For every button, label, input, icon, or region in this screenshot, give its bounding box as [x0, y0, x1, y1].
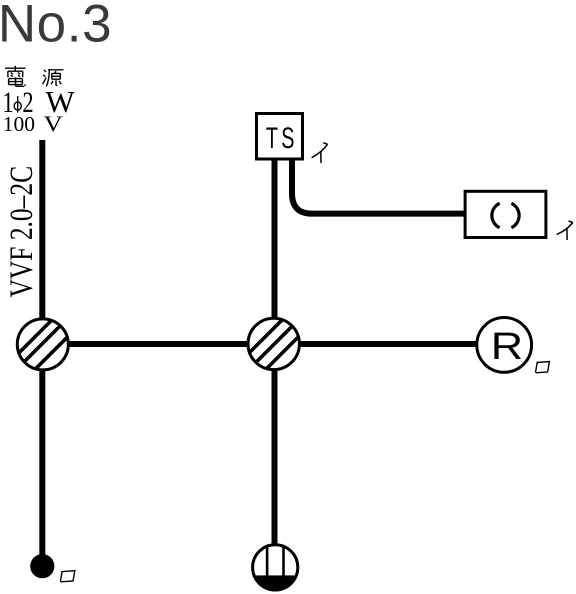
wire: TS to square ceiling box (curved) [292, 159, 464, 214]
wire: right joint box up to TS [272, 159, 278, 344]
label イ (for ceiling box) [557, 221, 573, 240]
joint box left (VVF junction, hatched circle) [14, 316, 73, 375]
ceiling box (square hook ceiling) [465, 191, 546, 237]
label ロ (for R) [536, 362, 550, 373]
svg-text:100: 100 [3, 112, 35, 136]
svg-text:V: V [44, 112, 64, 136]
wire: main horizontal between joint boxes [42, 341, 504, 347]
timer switch TS box [257, 114, 303, 160]
wire: left joint box down to switch [39, 344, 45, 556]
svg-text:R: R [491, 324, 523, 367]
joint box right (VVF junction, hatched circle) [245, 315, 304, 374]
wire: source drop (vertical from 100V to left joint box) [39, 140, 45, 344]
switch (dot) [30, 554, 54, 578]
label 源 (kanji "gen" of 電源) [43, 70, 64, 87]
wire: right joint box down to outlet [272, 344, 278, 545]
label ロ (for switch) [60, 571, 74, 582]
svg-text:T: T [266, 122, 278, 155]
svg-text:S: S [281, 122, 294, 155]
phi symbol [14, 96, 21, 112]
wall outlet (circle, 2 bars, bottom filled) [251, 543, 300, 592]
svg-text:No.3: No.3 [0, 0, 112, 53]
label イ (for TS) [312, 143, 328, 163]
svg-text:VVF 2.0–2C: VVF 2.0–2C [4, 166, 40, 298]
lamp receptacle R [477, 318, 532, 373]
label 電 (kanji "den" of 電源) [5, 66, 26, 87]
